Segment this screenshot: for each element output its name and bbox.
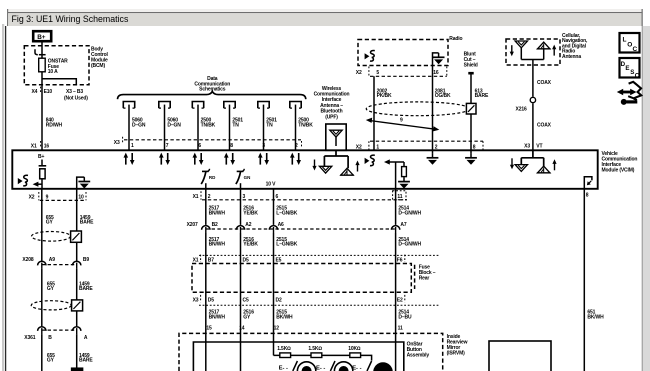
connector X3 VT xyxy=(524,143,542,149)
transmit antenna glyph xyxy=(537,42,551,59)
serial data arrows 6 xyxy=(290,153,301,165)
svg-text:C: C xyxy=(635,72,640,79)
data pin symbol 1 xyxy=(123,102,134,109)
label 651 BK/WH xyxy=(587,310,604,321)
data pin symbol 4 xyxy=(224,102,235,109)
svg-text:9: 9 xyxy=(400,118,403,124)
svg-text:BN/WH: BN/WH xyxy=(209,210,226,216)
bluetooth receive arrow xyxy=(312,160,316,171)
svg-text:BK/WH: BK/WH xyxy=(587,314,604,320)
wire 2501 TN a xyxy=(229,105,231,151)
svg-text:2: 2 xyxy=(295,143,298,149)
LOC button xyxy=(620,33,640,53)
svg-text:Rear: Rear xyxy=(419,275,430,281)
wire 2501 TN b xyxy=(263,105,265,151)
serial data arrows 2 xyxy=(159,153,170,165)
button contact E-- a xyxy=(279,361,298,371)
wire 840 RD/WH label xyxy=(46,118,63,129)
svg-text:1.5KΩ: 1.5KΩ xyxy=(277,346,291,352)
wire 2517 BN/WH mid xyxy=(205,233,207,371)
svg-text:D2: D2 xyxy=(276,298,282,304)
svg-text:TN/BK: TN/BK xyxy=(298,122,313,128)
svg-text:A6: A6 xyxy=(278,222,284,228)
wire 2514 D-GN/WH upper xyxy=(395,189,397,225)
internal connection A symbol xyxy=(584,177,592,189)
blunt cut terminal xyxy=(468,72,473,75)
svg-text:5: 5 xyxy=(376,70,379,76)
test probe GN xyxy=(236,169,250,189)
note 9 arrow xyxy=(366,118,440,132)
svg-text:GY: GY xyxy=(47,286,55,292)
connector X2 radio row xyxy=(356,67,447,77)
wire 840 RD/WH xyxy=(41,85,43,150)
svg-text:BARE: BARE xyxy=(80,220,94,226)
inline connector bump 2 xyxy=(236,226,244,233)
svg-text:D5: D5 xyxy=(208,298,214,304)
shield drain box 3 partial xyxy=(72,368,83,371)
svg-text:11: 11 xyxy=(398,325,403,331)
coax transmit arrow xyxy=(552,159,556,170)
svg-text:10KΩ: 10KΩ xyxy=(348,346,361,352)
inline connector bump 1 xyxy=(202,226,210,233)
receive antenna glyph xyxy=(515,41,527,60)
data pin symbol 6 xyxy=(290,102,301,109)
svg-text:X208: X208 xyxy=(22,257,33,263)
svg-text:BARE: BARE xyxy=(79,286,93,292)
svg-text:10: 10 xyxy=(78,194,84,200)
svg-text:VT: VT xyxy=(536,143,542,149)
wire 655 GY mid xyxy=(41,269,43,327)
transmit arrow xyxy=(552,45,556,56)
svg-text:B2: B2 xyxy=(212,222,218,228)
svg-text:8: 8 xyxy=(586,193,589,199)
stub wire to X3-B3 xyxy=(42,79,76,85)
data pin symbol 5 xyxy=(258,102,269,109)
wire 651 BK/WH xyxy=(583,189,585,371)
wire 2081 OG/BK xyxy=(432,66,434,151)
B+ power symbol box xyxy=(33,31,51,41)
svg-text:X2: X2 xyxy=(356,70,362,76)
title bar highlight xyxy=(7,9,643,12)
svg-text:(ISRVM): (ISRVM) xyxy=(447,350,466,356)
resistor 1.5K a xyxy=(280,353,291,358)
svg-text:D–GN/WH: D–GN/WH xyxy=(398,210,421,216)
shield drain box on 613 wire xyxy=(466,103,476,114)
svg-text:A2: A2 xyxy=(245,222,251,228)
svg-text:GY: GY xyxy=(243,314,251,320)
svg-text:B+: B+ xyxy=(38,154,44,160)
svg-text:D–GN: D–GN xyxy=(167,122,181,128)
inside rearview mirror dashed box xyxy=(179,333,443,371)
switch contact in BCM xyxy=(35,47,42,55)
button 1 xyxy=(297,362,315,371)
shield drain box 1 xyxy=(71,231,82,242)
svg-text:16: 16 xyxy=(433,70,439,76)
shield drain box 2 xyxy=(72,300,83,311)
fuse ONSTAR 10A xyxy=(39,55,68,75)
shield ellipse around radio wires xyxy=(366,102,469,116)
Cellular Navigation Digital Radio Antenna dashed box xyxy=(506,39,560,65)
antenna signal icon left xyxy=(18,175,28,186)
svg-text:YE/BK: YE/BK xyxy=(243,210,258,216)
label 2514 D-GN/WH row2 xyxy=(398,237,421,248)
antenna bus wire xyxy=(521,60,543,97)
svg-text:C: C xyxy=(633,46,638,53)
label 2515 BK/WH row3 xyxy=(276,310,293,321)
svg-text:X3: X3 xyxy=(524,143,530,149)
serial data arrows 4 xyxy=(224,153,235,165)
svg-text:YE/BK: YE/BK xyxy=(243,242,258,248)
svg-text:1: 1 xyxy=(131,143,134,149)
svg-text:8: 8 xyxy=(230,143,233,149)
svg-text:X216: X216 xyxy=(516,107,527,113)
svg-text:B7: B7 xyxy=(208,257,214,263)
svg-text:E- -: E- - xyxy=(352,366,361,371)
onstar button assembly box xyxy=(193,342,403,371)
svg-text:OG/BK: OG/BK xyxy=(435,93,451,99)
label 655 GY row1 xyxy=(46,215,54,226)
label 5060 D-GN a xyxy=(132,118,146,129)
svg-text:F6: F6 xyxy=(397,257,403,263)
serial data arrows 1 xyxy=(124,153,135,165)
svg-text:7: 7 xyxy=(166,143,169,149)
bluetooth antenna module box xyxy=(326,124,346,150)
wire 2516 YE/BK upper xyxy=(240,189,242,225)
label 655 GY row3 xyxy=(47,353,55,364)
label 2517 BN/WH row2 xyxy=(209,237,226,248)
svg-text:B: B xyxy=(48,335,52,341)
svg-text:GY: GY xyxy=(46,220,54,226)
label 655 GY row2 xyxy=(47,281,55,292)
inline connector bump X361 b xyxy=(73,327,81,334)
svg-text:A9: A9 xyxy=(49,257,55,263)
label 2516 GY row3 xyxy=(243,310,254,321)
svg-text:10 V: 10 V xyxy=(266,182,277,188)
connector X207 row xyxy=(187,222,396,229)
label 2517 BN/WH row1 xyxy=(209,206,226,217)
label 2500 TN/BK b xyxy=(298,118,313,129)
Fuse Block Rear label xyxy=(415,265,436,290)
svg-text:L–GN/BK: L–GN/BK xyxy=(276,210,297,216)
BCM dashed box xyxy=(24,46,89,85)
svg-text:Radio: Radio xyxy=(449,36,462,42)
label 2081 OG/BK xyxy=(435,89,451,100)
wire 655 GY lower xyxy=(41,334,43,371)
svg-text:X1: X1 xyxy=(193,194,199,200)
svg-text:BARE: BARE xyxy=(475,93,489,99)
X3-B3 not used label xyxy=(64,89,88,102)
svg-text:B9: B9 xyxy=(83,257,89,263)
svg-text:RD: RD xyxy=(209,175,216,180)
arrow to antenna signal xyxy=(384,159,404,164)
wire 1459 BARE lower xyxy=(76,334,78,371)
label 2515 L-GN/BK row1 xyxy=(276,206,297,217)
svg-text:1.5KΩ: 1.5KΩ xyxy=(308,346,322,352)
scrollbar edge xyxy=(642,26,643,371)
label 1459 BARE row2 xyxy=(79,281,93,292)
wire 5060 D-GN a xyxy=(128,105,130,151)
svg-text:GY: GY xyxy=(47,358,55,364)
label 1459 BARE row1 xyxy=(80,215,94,226)
bluetooth antenna feed inside VCIM xyxy=(319,150,354,175)
svg-text:TN: TN xyxy=(232,122,239,128)
button contact E-- c xyxy=(352,361,371,371)
connector X1 row below VCIM xyxy=(193,191,407,200)
svg-text:3: 3 xyxy=(243,194,246,200)
wire 2516 YE/BK mid xyxy=(240,233,242,371)
svg-text:BK/WH: BK/WH xyxy=(276,314,293,320)
wire 2515 L-GN/BK upper xyxy=(273,189,275,225)
svg-text:9: 9 xyxy=(46,194,49,200)
Radio dashed box xyxy=(358,40,448,66)
svg-text:6: 6 xyxy=(276,194,279,200)
svg-text:COAX: COAX xyxy=(537,123,552,129)
coax antenna feed inside VCIM xyxy=(515,150,551,173)
wire to pin 11 inside VCIM xyxy=(395,162,397,189)
wire 2514 D-GN/WH mid xyxy=(395,233,397,371)
svg-text:X3 – B3: X3 – B3 xyxy=(66,89,83,95)
inline connector bump 4 xyxy=(391,226,399,233)
button contact E-- b xyxy=(316,361,335,371)
svg-text:D–GN/WH: D–GN/WH xyxy=(398,242,421,248)
svg-text:PK/BK: PK/BK xyxy=(377,93,392,99)
coax receive arrow xyxy=(510,158,514,169)
svg-text:X3: X3 xyxy=(193,298,199,304)
svg-text:L: L xyxy=(623,37,627,44)
button 2 xyxy=(334,362,352,371)
serial data arrows 3 xyxy=(193,153,204,165)
svg-text:10 A: 10 A xyxy=(48,69,58,75)
svg-text:Shield: Shield xyxy=(464,63,478,69)
wire 2500 TN/BK a xyxy=(197,105,199,151)
Data Communication Schematics label xyxy=(194,76,230,93)
svg-text:Assembly: Assembly xyxy=(407,352,430,358)
wire 655 GY top xyxy=(41,189,43,261)
label 613 BARE xyxy=(475,89,489,100)
wire 1459 BARE mid xyxy=(76,269,78,327)
shield ellipse 2 xyxy=(31,301,71,310)
svg-text:A7: A7 xyxy=(400,222,406,228)
svg-text:TN: TN xyxy=(266,122,273,128)
svg-text:16: 16 xyxy=(44,143,50,149)
wire fuse output xyxy=(41,72,43,85)
svg-text:E: E xyxy=(625,65,629,72)
antenna signal icon in radio xyxy=(365,51,375,62)
connector X2 VCIM row xyxy=(356,141,483,150)
inline connector bump X208 b xyxy=(73,261,81,268)
svg-text:E- -: E- - xyxy=(279,366,288,371)
svg-text:X3: X3 xyxy=(114,140,120,146)
svg-text:Fig 3: UE1 Wiring Schematics: Fig 3: UE1 Wiring Schematics xyxy=(12,14,129,24)
svg-text:BARE: BARE xyxy=(79,358,93,364)
svg-text:E5: E5 xyxy=(276,257,282,263)
wire 2500 TN/BK b xyxy=(295,105,297,151)
svg-text:D–GN: D–GN xyxy=(132,122,146,128)
svg-text:3: 3 xyxy=(262,143,265,149)
title bar top border xyxy=(7,12,643,13)
svg-text:(BCM): (BCM) xyxy=(91,63,105,69)
button 3 xyxy=(373,362,393,371)
svg-text:L–GN/BK: L–GN/BK xyxy=(276,242,297,248)
fuse inside VCIM xyxy=(39,160,47,189)
label 1459 BARE row3 xyxy=(79,353,93,364)
data pin symbol 2 xyxy=(159,102,170,109)
vehicle communication interface module VCIM box xyxy=(12,150,597,189)
Inside Rearview Mirror ISRVM label xyxy=(447,334,468,356)
inline connector bump X361 a xyxy=(38,327,46,334)
ground under resistor xyxy=(398,177,410,188)
receive arrow xyxy=(510,45,514,56)
shield ellipse 1 xyxy=(32,232,71,242)
svg-text:BN/WH: BN/WH xyxy=(209,314,226,320)
svg-text:A: A xyxy=(84,335,88,341)
svg-text:S: S xyxy=(630,69,634,76)
wire B+ to BCM xyxy=(41,41,43,47)
label 2500 TN/BK a xyxy=(201,118,216,129)
svg-text:11: 11 xyxy=(397,194,402,200)
title bar xyxy=(8,13,641,26)
window left edge band xyxy=(2,24,4,371)
resistor inside VCIM xyxy=(402,162,407,177)
connector X1 fuse block row xyxy=(193,255,439,264)
svg-text:E2: E2 xyxy=(397,298,403,304)
connector X2 pins 9 10 row xyxy=(29,192,86,200)
svg-text:GN: GN xyxy=(244,175,251,180)
svg-text:TN/BK: TN/BK xyxy=(201,122,216,128)
resistor chain wire xyxy=(274,355,372,360)
label 2516 YE/BK row1 xyxy=(243,206,258,217)
ground under pin 8 xyxy=(465,150,477,164)
title bar left border xyxy=(7,9,8,26)
inline connector bump X208 a xyxy=(38,261,46,268)
label 2002 PK/BK xyxy=(377,89,392,100)
ground via pin 10 inside VCIM xyxy=(77,177,91,189)
VCIM label xyxy=(602,151,638,174)
label 2516 YE/BK row2 xyxy=(243,237,258,248)
serial data arrows 5 xyxy=(258,153,269,165)
svg-text:12: 12 xyxy=(274,325,280,331)
antenna signal icon under pin 1 xyxy=(365,155,375,166)
svg-text:6: 6 xyxy=(198,143,201,149)
bluetooth transmit arrow xyxy=(355,161,359,172)
wire 613 BARE xyxy=(470,74,472,150)
title bar right border xyxy=(642,9,643,26)
label 2517 BN/WH row3 xyxy=(209,310,226,321)
connector X361 row xyxy=(24,330,76,341)
connector X208 row xyxy=(22,257,76,265)
cellular antenna label xyxy=(562,33,588,60)
connector X1 pin 16 xyxy=(31,141,50,149)
wire 2515 L-GN/BK mid xyxy=(273,233,275,355)
svg-text:X4: X4 xyxy=(32,89,38,95)
svg-text:D5: D5 xyxy=(243,257,249,263)
svg-text:X1: X1 xyxy=(193,257,199,263)
Wireless Communication Interface Antenna Bluetooth UPF label xyxy=(314,86,350,121)
svg-text:X361: X361 xyxy=(24,335,35,341)
connector X4 E10 labels xyxy=(32,87,53,95)
X1 pin 11 dashed box xyxy=(393,191,406,200)
svg-text:X2: X2 xyxy=(29,194,35,200)
connector X3 fuse block row xyxy=(193,295,439,305)
svg-text:C5: C5 xyxy=(243,298,249,304)
schematic page left border xyxy=(5,26,7,371)
svg-text:(UPF): (UPF) xyxy=(325,114,338,120)
ground in radio xyxy=(433,53,445,66)
coax wire to VCIM xyxy=(532,103,534,150)
connector X3 data row xyxy=(114,137,302,148)
Body Control Module label xyxy=(91,47,108,69)
label 2514 D-GN/WH row1 xyxy=(398,206,421,217)
wire 1459 BARE top xyxy=(76,189,78,261)
svg-text:X207: X207 xyxy=(187,222,198,228)
Blunt Cut Shield label xyxy=(464,52,478,69)
svg-text:14: 14 xyxy=(239,325,245,331)
fuse block rear dashed box xyxy=(192,264,411,293)
DESC button xyxy=(620,58,640,79)
wire 5060 D-GN b xyxy=(164,105,166,151)
svg-text:Antenna: Antenna xyxy=(562,54,581,60)
wire 2517 BN/WH upper xyxy=(205,189,207,225)
navigate arrows icon xyxy=(617,82,641,105)
brace over data pins xyxy=(118,91,306,99)
label 2515 L-GN/BK row2 xyxy=(276,237,297,248)
svg-text:RD/WH: RD/WH xyxy=(46,122,63,128)
arrow to antenna signal left xyxy=(33,182,42,187)
svg-text:COAX: COAX xyxy=(537,80,552,86)
ground under pin 2 xyxy=(427,150,439,164)
data pin symbol 3 xyxy=(192,102,203,109)
scrollbar xyxy=(643,26,650,371)
label 2514 D-BU row3 xyxy=(398,310,412,321)
resistor 1.5K b xyxy=(311,353,322,358)
svg-text:D–BU: D–BU xyxy=(398,314,412,320)
label 2501 TN b xyxy=(266,118,277,129)
svg-text:B+: B+ xyxy=(37,34,46,41)
svg-text:(Not Used): (Not Used) xyxy=(64,96,88,102)
resistor 10K xyxy=(350,353,361,358)
OnStar Button Assembly label xyxy=(407,342,430,359)
svg-text:2: 2 xyxy=(208,194,211,200)
component box bottom right xyxy=(489,341,551,371)
svg-text:Module (VCIM): Module (VCIM) xyxy=(602,168,635,174)
connector X216 xyxy=(516,97,536,112)
svg-text:BN/WH: BN/WH xyxy=(209,242,226,248)
svg-text:E10: E10 xyxy=(44,89,53,95)
inline connector bump 3 xyxy=(269,226,277,233)
label 5060 D-GN b xyxy=(167,118,181,129)
label 2501 TN a xyxy=(232,118,243,129)
wire 2002 PK/BK xyxy=(373,76,375,150)
test probe RD xyxy=(201,169,216,189)
svg-text:E- -: E- - xyxy=(316,366,325,371)
svg-text:15: 15 xyxy=(206,325,212,331)
svg-text:X1: X1 xyxy=(31,143,37,149)
